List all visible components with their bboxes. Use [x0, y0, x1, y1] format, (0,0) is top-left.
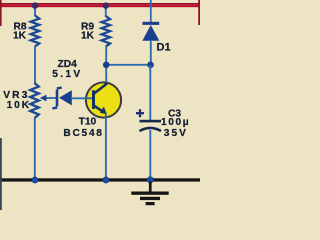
node: collector junction — [103, 62, 110, 69]
svg-text:1K: 1K — [13, 30, 27, 41]
svg-text:10K: 10K — [7, 100, 31, 111]
wire: VR3 to ground line — [34, 118, 36, 180]
wire: rail to R9 — [105, 6, 107, 17]
node: D1/C3 junction — [147, 62, 154, 69]
wire: R9 to collector node — [105, 46, 107, 84]
right supply rail edge (cropped vertical red stub) — [198, 0, 200, 25]
cropped wire at left edge — [0, 138, 2, 210]
diode D1 — [142, 22, 159, 41]
transistor T10 base bar — [92, 90, 95, 109]
svg-text:BC548: BC548 — [63, 128, 103, 139]
wire: D1 anode to node — [150, 40, 152, 65]
node: VR3 on ground line — [32, 177, 38, 183]
wire: collector node to D1/C3 node (horizontal) — [106, 64, 150, 66]
node: emitter on ground line — [103, 177, 109, 183]
resistor R8 — [31, 16, 40, 47]
wire: emitter to ground line — [105, 114, 107, 181]
svg-text:D1: D1 — [157, 42, 171, 54]
node: C3/ground junction — [147, 177, 153, 183]
capacitor C3 (electrolytic) — [136, 109, 161, 131]
transistor T10 emitter stroke with arrow — [94, 105, 107, 114]
svg-text:T10: T10 — [79, 117, 97, 128]
wire: R8 to VR3 — [34, 46, 36, 84]
wire: zener anode to T10 base — [71, 97, 93, 99]
+V supply rail (top, red) — [0, 3, 200, 7]
transistor T10 collector stroke — [94, 84, 108, 95]
svg-text:35V: 35V — [164, 128, 188, 139]
left supply rail edge (cropped vertical red stub) — [0, 0, 2, 26]
wire: node to C3 positive plate — [149, 65, 151, 120]
wire: C3 negative plate to ground — [149, 130, 151, 180]
wire: rail to D1 cathode (continues above rail, cropped) — [150, 0, 152, 23]
wire: rail to R8 — [34, 6, 36, 16]
zener diode ZD4 — [52, 88, 71, 109]
potentiometer VR3 — [30, 83, 39, 118]
ground rail (black horizontal line) — [0, 178, 200, 181]
svg-text:5.1V: 5.1V — [52, 69, 82, 80]
ground symbol — [131, 182, 168, 206]
svg-text:100µ: 100µ — [161, 117, 190, 128]
transistor T10 circle — [86, 82, 121, 117]
node: R9 junction on +V rail — [103, 2, 109, 8]
VR3 wiper arrow — [40, 95, 56, 102]
svg-text:1K: 1K — [81, 30, 95, 41]
resistor R9 — [102, 16, 111, 47]
node: R8 junction on +V rail — [32, 2, 38, 8]
